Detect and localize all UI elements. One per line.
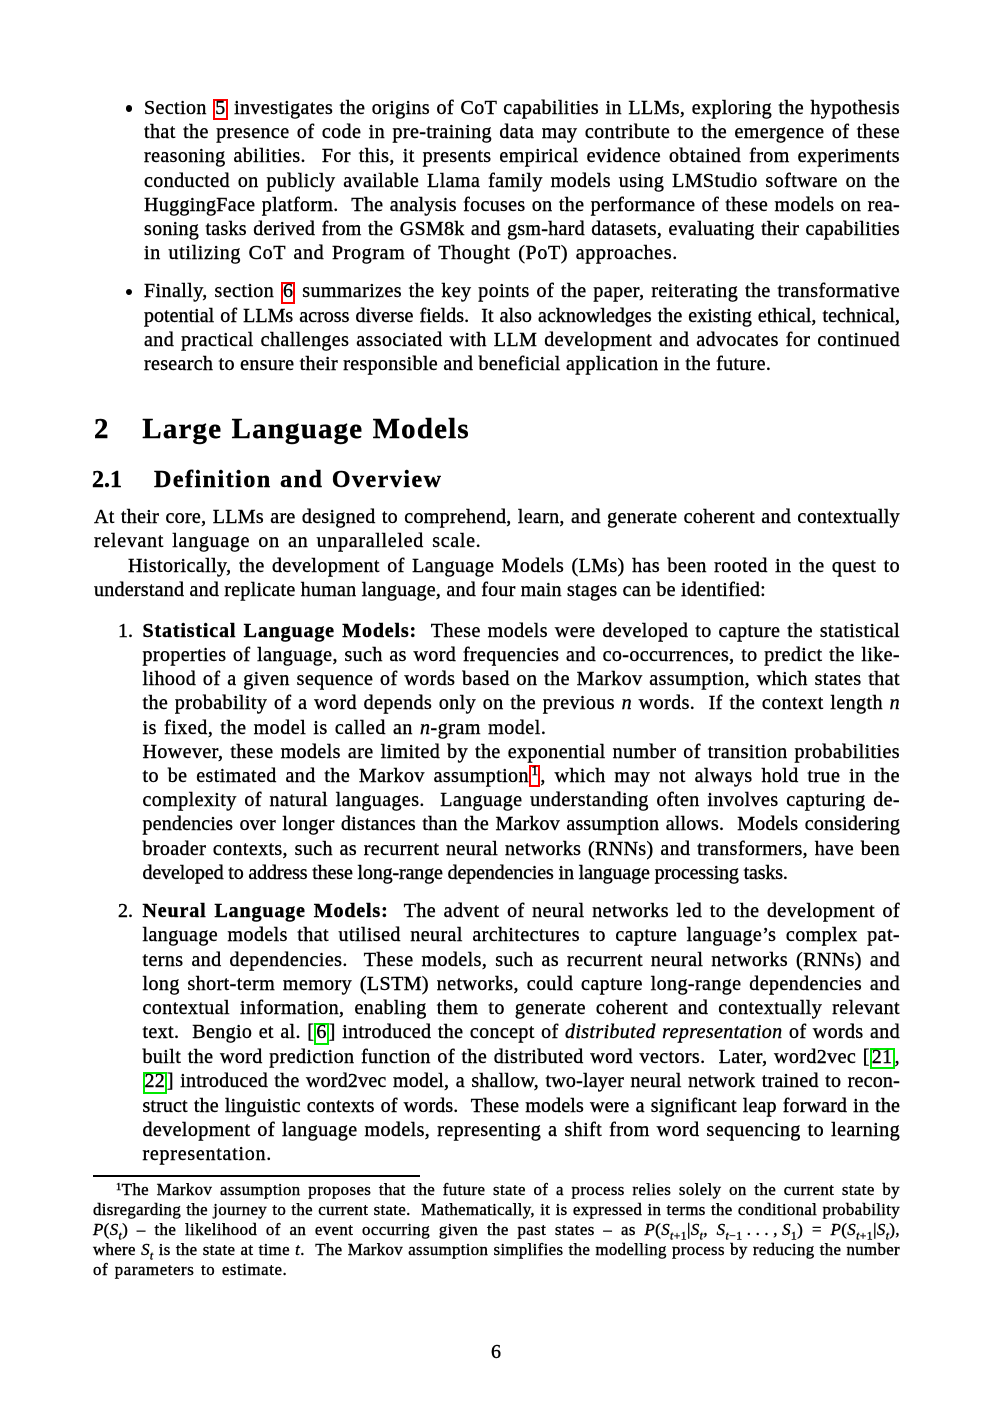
item label 1	[118, 619, 133, 643]
footnote rule	[93, 1175, 420, 1177]
list item 1	[143, 619, 901, 885]
paragraph 2	[94, 554, 900, 602]
bullet item 2	[144, 279, 900, 376]
bullet dot 1	[126, 105, 132, 111]
list item 2	[143, 899, 901, 1166]
footnote	[93, 1180, 900, 1280]
bullet item 1	[144, 96, 900, 266]
bullet dot 2	[126, 289, 132, 295]
section heading	[94, 415, 470, 444]
item label 2	[118, 899, 133, 923]
paragraph 1	[94, 505, 900, 553]
page number	[0, 1340, 992, 1364]
subsection heading	[92, 468, 443, 492]
